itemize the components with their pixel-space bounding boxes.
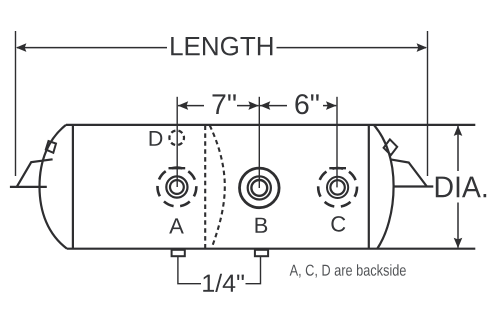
left mounting bracket body xyxy=(17,159,53,187)
right mounting bracket body xyxy=(390,159,427,186)
bottom drain fitting under A xyxy=(172,250,185,256)
port D dashed circle xyxy=(169,131,184,146)
LENGTH dimension line right segment xyxy=(277,47,427,49)
bottom drain fitting under B xyxy=(255,250,268,256)
6inch dimension line left segment xyxy=(260,105,287,107)
note: A, C, D are backside xyxy=(290,264,406,277)
DIA dimension line lower segment xyxy=(457,203,459,248)
tank top edge / DIA top extension line xyxy=(66,124,475,126)
port C label xyxy=(331,216,345,232)
6inch dimension line right segment xyxy=(323,105,336,107)
port A inner circle xyxy=(170,180,184,194)
LENGTH dimension line left segment xyxy=(17,47,167,49)
tank bottom edge / DIA bottom extension line xyxy=(67,248,475,250)
LENGTH right arrowhead xyxy=(417,43,427,52)
tank left head dome xyxy=(40,125,68,249)
tank right head seam xyxy=(368,125,370,249)
port B label xyxy=(256,218,268,233)
left bracket tab xyxy=(46,141,56,153)
LENGTH right extension line xyxy=(427,31,429,176)
port A top quadrant tick xyxy=(169,167,186,169)
7inch dimension line right segment xyxy=(237,105,259,107)
LENGTH label xyxy=(171,37,272,56)
dashed internal weld line (straight) xyxy=(204,126,206,249)
port B middle ring xyxy=(248,176,271,199)
leader from A drain fitting xyxy=(178,256,201,284)
6inch left arrowhead xyxy=(260,101,270,110)
port C dashed bolt circle xyxy=(318,168,357,207)
DIA down arrowhead xyxy=(454,238,463,248)
1/4 inch label xyxy=(203,274,244,292)
DIA label xyxy=(436,177,486,198)
7inch extension line at A (through D) xyxy=(176,97,178,187)
tank left head seam xyxy=(72,125,74,249)
port B outer circle xyxy=(239,168,279,208)
7inch label xyxy=(213,94,236,114)
right bracket tab xyxy=(384,139,398,155)
port C inner circle xyxy=(330,180,344,194)
7inch left arrowhead xyxy=(178,101,188,110)
LENGTH left arrowhead xyxy=(16,43,26,52)
port A label xyxy=(169,218,184,233)
6inch extension line at C xyxy=(336,97,338,188)
port D label xyxy=(150,131,163,146)
DIA dimension line upper segment xyxy=(457,126,459,171)
tank right head dome xyxy=(374,125,394,249)
port C outer ring xyxy=(327,177,348,198)
port C top quadrant tick xyxy=(329,167,346,169)
leader from B drain fitting xyxy=(246,256,261,284)
7inch/6inch extension line at B xyxy=(258,97,260,188)
7inch dimension line left segment xyxy=(178,105,204,107)
6inch label xyxy=(295,94,318,114)
LENGTH left extension line xyxy=(15,31,17,176)
7inch right arrowhead xyxy=(248,101,258,110)
left mounting bracket foot xyxy=(10,186,47,188)
6inch right arrowhead xyxy=(326,101,336,110)
port A dashed bolt circle xyxy=(158,168,197,207)
DIA up arrowhead xyxy=(454,126,463,136)
dashed internal weld arc xyxy=(210,126,225,248)
port A outer ring xyxy=(166,176,187,197)
port B inner circle xyxy=(251,180,267,196)
right mounting bracket foot xyxy=(393,185,433,187)
